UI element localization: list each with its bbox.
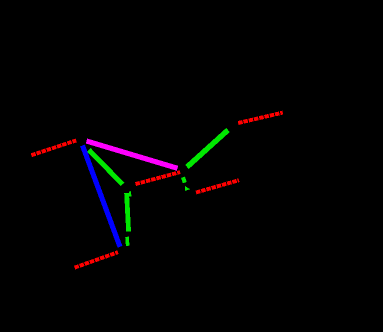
wire green dashed edge G2 dash d2 head bump — [129, 191, 131, 196]
wire green solid edge G1 (node A to node C) — [89, 150, 123, 185]
wire green dashed edge G2 dash d2 (long) — [127, 193, 129, 232]
wire red dashed edge R2 (node C to node B) — [136, 172, 181, 184]
wire red dashed edge R1 (left, to node A) — [31, 140, 76, 155]
wire blue solid edge B1 (node A to node D) — [83, 146, 121, 247]
wire red dashed edge R3 (node F to right) — [196, 180, 239, 192]
wire green dashed edge G2 dash d3 (to node D) — [126, 237, 129, 246]
wire red dashed edge R4 (bottom left, to node D) — [75, 252, 118, 267]
wire green solid edge G3 (node B to node E) — [187, 130, 228, 167]
wire red dashed edge R5 (node E to top right) — [238, 113, 283, 123]
wire green dashed edge G4 dash (node B down) — [183, 177, 185, 182]
wire magenta solid edge M1 (node A to node B) — [87, 141, 178, 168]
wire green arrowhead of edge G4 — [185, 186, 190, 191]
